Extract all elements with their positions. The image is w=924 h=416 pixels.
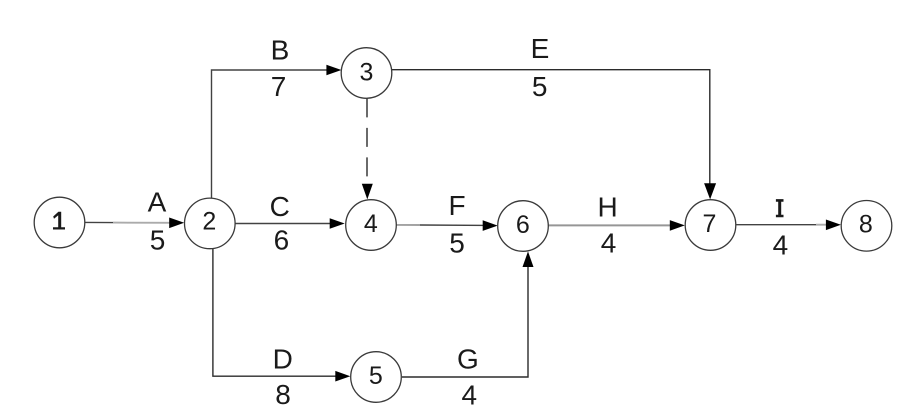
svg-text:8: 8 bbox=[859, 210, 873, 238]
svg-text:B: B bbox=[271, 35, 290, 66]
arrowhead G into node 6 bottom bbox=[523, 251, 534, 267]
wire E: node 3 right then down to node 7 bbox=[392, 70, 710, 185]
svg-text:D: D bbox=[273, 343, 293, 374]
svg-text:4: 4 bbox=[462, 380, 478, 411]
svg-text:4: 4 bbox=[364, 210, 378, 238]
svg-text:6: 6 bbox=[274, 224, 290, 255]
node 4 circle bbox=[346, 200, 397, 251]
arrowhead dashed into node 4 top bbox=[362, 184, 373, 200]
svg-text:4: 4 bbox=[773, 230, 789, 261]
svg-text:A: A bbox=[148, 187, 167, 218]
wire F: node 4 to node 6 (light then dark segment) bbox=[397, 224, 421, 226]
label I bbox=[776, 199, 784, 217]
svg-text:5: 5 bbox=[150, 224, 166, 255]
node 8 circle bbox=[841, 201, 892, 252]
svg-text:F: F bbox=[448, 190, 465, 221]
svg-text:6: 6 bbox=[516, 211, 530, 239]
node 6 circle bbox=[498, 201, 549, 252]
svg-text:5: 5 bbox=[449, 227, 465, 258]
wire D: node 2 down and right to node 5 bbox=[213, 248, 341, 376]
wire G: node 5 right then up to node 6 bbox=[402, 262, 528, 377]
svg-text:5: 5 bbox=[369, 362, 383, 390]
node 5 circle bbox=[351, 352, 402, 403]
wire B: node 2 up and right to node 3 bbox=[212, 70, 334, 199]
node 1 label bbox=[53, 212, 65, 230]
svg-text:E: E bbox=[531, 33, 550, 64]
arrowhead E into node 7 top bbox=[704, 183, 716, 199]
svg-text:3: 3 bbox=[360, 59, 374, 87]
node 2 circle bbox=[185, 198, 236, 249]
node 3 circle bbox=[341, 48, 392, 99]
svg-text:G: G bbox=[457, 343, 479, 374]
arrowhead A into node 2 bbox=[169, 218, 184, 229]
svg-text:C: C bbox=[270, 191, 290, 222]
wire H: node 6 to node 7 (light gray) bbox=[548, 224, 676, 226]
wire C: node 2 to node 4 bbox=[235, 223, 336, 225]
svg-text:7: 7 bbox=[271, 71, 287, 102]
node 1 circle bbox=[34, 197, 85, 248]
arrowhead B into node 3 bbox=[326, 65, 341, 76]
arrowhead D into node 5 bbox=[335, 371, 350, 382]
svg-text:8: 8 bbox=[275, 379, 291, 410]
node 7 circle bbox=[685, 200, 736, 251]
svg-text:4: 4 bbox=[601, 227, 617, 258]
arrowhead F into node 6 bbox=[483, 220, 498, 231]
arrowhead H into node 7 bbox=[670, 220, 685, 231]
svg-text:5: 5 bbox=[532, 71, 548, 102]
wire dashed: node 3 down to node 4 bbox=[366, 98, 368, 186]
svg-text:H: H bbox=[597, 192, 617, 223]
wire I: node 7 to node 8 (dark then light segment) bbox=[736, 224, 816, 226]
arrowhead C into node 4 bbox=[330, 218, 345, 229]
svg-text:7: 7 bbox=[703, 210, 717, 238]
wire A: node 1 to node 2 (dark then light segment) bbox=[85, 221, 113, 223]
svg-text:2: 2 bbox=[202, 208, 216, 236]
arrowhead I into node 8 bbox=[826, 220, 841, 231]
